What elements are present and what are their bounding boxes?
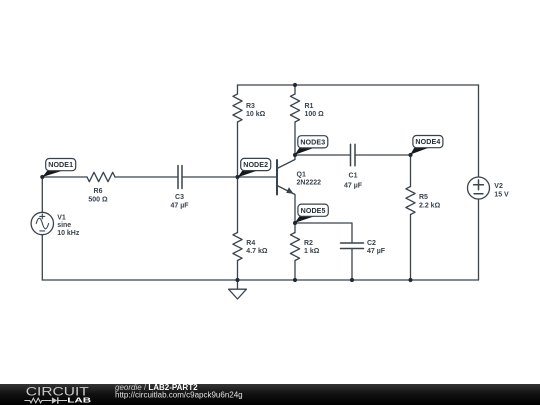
wire C3 to NODE2 to Q1 base <box>182 176 277 178</box>
node NODE4 <box>410 136 443 155</box>
svg-text:NODE2: NODE2 <box>243 161 268 169</box>
resistor R2 <box>290 223 299 280</box>
svg-text:V1: V1 <box>57 214 66 221</box>
wire C1 to NODE4 <box>355 154 411 156</box>
resistor R6 <box>87 172 115 181</box>
svg-text:C2: C2 <box>367 240 376 247</box>
wire V1 bottom lead <box>41 235 43 280</box>
svg-text:Q1: Q1 <box>297 172 306 179</box>
wire V2 branch down to source <box>478 85 480 177</box>
svg-text:R6: R6 <box>94 188 103 195</box>
svg-text:100 Ω: 100 Ω <box>305 111 325 118</box>
svg-text:http://circuitlab.com/c9apck9u: http://circuitlab.com/c9apck9u6n24g <box>115 391 243 400</box>
svg-text:R4: R4 <box>246 240 255 247</box>
svg-text:15 V: 15 V <box>494 191 509 198</box>
capacitor C2 <box>341 243 364 249</box>
svg-text:LAB: LAB <box>67 395 91 404</box>
resistor R5 <box>406 155 415 280</box>
wire C2 bottom lead <box>351 249 353 281</box>
svg-text:NODE1: NODE1 <box>48 161 73 169</box>
resistor R1 <box>290 85 299 155</box>
svg-text:C1: C1 <box>349 172 358 179</box>
wire R6 to C3 <box>115 176 178 178</box>
wire bottom ground rail <box>42 279 478 281</box>
wire V1 top lead <box>41 177 43 212</box>
node NODE5 <box>295 204 329 223</box>
svg-text:NODE3: NODE3 <box>300 138 325 146</box>
node NODE2 <box>238 158 271 177</box>
svg-text:sine: sine <box>57 222 71 229</box>
svg-text:4.7 kΩ: 4.7 kΩ <box>246 248 268 255</box>
resistor R3 <box>233 85 242 177</box>
node NODE1 <box>42 159 75 178</box>
svg-text:47 µF: 47 µF <box>367 248 386 255</box>
svg-text:R5: R5 <box>419 194 428 201</box>
logo resistor-diode glyph <box>24 397 67 403</box>
ground <box>229 280 247 299</box>
capacitor C3 <box>178 166 182 189</box>
svg-text:500 Ω: 500 Ω <box>88 196 108 203</box>
svg-text:10 kΩ: 10 kΩ <box>246 111 266 118</box>
footer bar <box>0 384 540 405</box>
svg-text:10 kHz: 10 kHz <box>57 230 80 237</box>
wire top rail from R3 top to V2 branch <box>238 84 479 86</box>
resistor R4 <box>233 177 242 280</box>
svg-text:47 µF: 47 µF <box>170 202 189 209</box>
svg-text:NODE5: NODE5 <box>301 207 326 215</box>
node NODE3 <box>295 136 328 155</box>
svg-text:V2: V2 <box>494 183 503 190</box>
svg-text:R2: R2 <box>304 240 313 247</box>
capacitor C1 <box>351 144 356 165</box>
svg-text:2.2 kΩ: 2.2 kΩ <box>419 202 441 209</box>
svg-text:1 kΩ: 1 kΩ <box>304 248 320 255</box>
wire input from NODE1 to R6 <box>42 176 87 178</box>
svg-text:C3: C3 <box>175 194 184 201</box>
svg-text:2N2222: 2N2222 <box>297 180 322 187</box>
wire NODE5 to C2 <box>295 223 352 243</box>
transistor Q1 <box>277 155 295 223</box>
voltage source V1 sine <box>31 212 53 234</box>
svg-text:R3: R3 <box>246 103 255 110</box>
wire V2 bottom to ground rail <box>478 199 480 280</box>
svg-text:NODE4: NODE4 <box>415 138 440 146</box>
svg-text:R1: R1 <box>305 103 314 110</box>
svg-text:47 µF: 47 µF <box>344 182 363 189</box>
wire NODE3 to C1 <box>295 154 351 156</box>
voltage source V2 <box>468 177 490 199</box>
